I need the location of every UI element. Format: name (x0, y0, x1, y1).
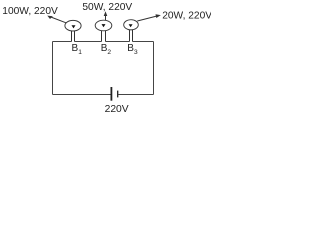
bulb B2 filament dot (102, 24, 106, 27)
leader arrow from bulb B3 to 20W, 220V label (137, 14, 161, 21)
label B3 (127, 43, 138, 56)
svg-text:50W, 220V: 50W, 220V (82, 2, 132, 13)
wire left side (52, 42, 54, 95)
svg-text:1: 1 (78, 49, 82, 56)
svg-text:220V: 220V (105, 104, 129, 115)
bulb B1 lead-in wires (neck) (72, 30, 75, 41)
svg-text:20W, 220V: 20W, 220V (162, 11, 211, 22)
bulb B3 filament dot (129, 24, 133, 27)
wire bottom-left segment (corner to battery positive plate) (53, 94, 111, 96)
battery V1 short (negative) plate (117, 91, 119, 98)
bulb B1 filament dot (72, 25, 76, 28)
label B1 (72, 43, 83, 56)
wire segment B2 to B3 (106, 41, 130, 43)
battery V1 long (positive) plate (110, 87, 112, 101)
wire top-right segment (B3 right lead to corner) (133, 41, 154, 43)
bulb B1 globe (65, 20, 81, 31)
wire top-left segment (corner to B1 left lead) (53, 41, 72, 43)
bulb B3 lead-in wires (neck) (130, 29, 133, 41)
wire bottom-right segment (battery negative plate to corner) (118, 94, 153, 96)
wire segment B1 to B2 (75, 41, 102, 43)
bulb B2 globe (95, 20, 112, 31)
svg-text:2: 2 (107, 49, 111, 56)
bulb B2 lead-in wires (neck) (102, 30, 106, 41)
svg-text:3: 3 (134, 49, 138, 56)
leader arrow from bulb B2 to 50W, 220V label (104, 11, 108, 20)
svg-text:100W, 220V: 100W, 220V (2, 6, 58, 17)
bulb B3 globe (124, 20, 139, 30)
wire right side (153, 42, 155, 95)
label B2 (101, 43, 112, 56)
leader arrow from bulb B1 to 100W, 220V label (47, 16, 66, 23)
